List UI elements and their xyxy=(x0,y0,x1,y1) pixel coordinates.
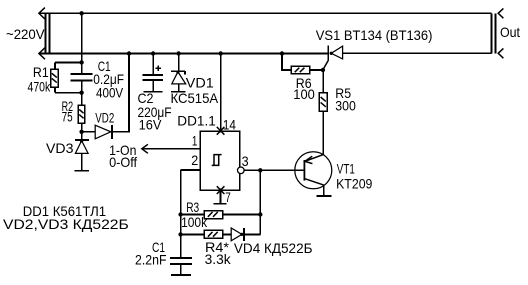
wire: riser from N wire to R6 xyxy=(282,54,291,71)
input connector double bar xyxy=(46,13,50,53)
svg-text:2.2nF: 2.2nF xyxy=(135,252,167,268)
svg-text:2: 2 xyxy=(191,152,198,168)
wire: output pin 3 to VT1 base xyxy=(244,169,304,171)
svg-text:470k: 470k xyxy=(28,78,51,94)
diode VD2 xyxy=(95,125,112,139)
common terminal bar of pin 7 xyxy=(213,203,226,205)
diode VD4 xyxy=(231,228,244,241)
wire: R4 left lead xyxy=(181,233,205,235)
node: junction R6 riser on N wire xyxy=(280,51,284,55)
svg-text:400V: 400V xyxy=(96,85,124,101)
svg-text:VD4 КД522Б: VD4 КД522Б xyxy=(234,240,313,256)
svg-text:3.3k: 3.3k xyxy=(205,251,232,267)
node: junction VD2 riser on N wire xyxy=(127,51,131,55)
wire: left feedback rail down to C1 2.2nF xyxy=(180,170,182,258)
svg-text:100k: 100k xyxy=(181,214,208,230)
wire: top mains line L xyxy=(39,12,492,14)
triac VS1 xyxy=(323,46,343,70)
node: junction R3 left xyxy=(178,212,182,216)
node: gate junction R5/R6 xyxy=(321,68,325,72)
resistor R1 xyxy=(51,62,82,92)
zener diode VD1 xyxy=(171,54,186,92)
svg-text:3: 3 xyxy=(242,153,249,169)
node: junction DD1 pin14 riser on N wire xyxy=(219,51,223,55)
svg-text:VD2,VD3 КД522Б: VD2,VD3 КД522Б xyxy=(3,216,129,232)
capacitor C1 (dropper 0.2uF) xyxy=(71,74,93,80)
node: junction R1/C1 bottom xyxy=(79,91,83,95)
svg-text:R3: R3 xyxy=(186,199,199,215)
capacitor C2 (electrolytic) xyxy=(143,54,164,92)
output connector arrow, bottom xyxy=(498,48,503,58)
common terminal bar of C2 xyxy=(143,91,162,93)
wire: VD4 cathode to feedback rail xyxy=(244,233,260,235)
wire: R6 to gate node xyxy=(310,69,323,71)
resistor R2 xyxy=(78,105,85,123)
svg-text:300: 300 xyxy=(335,98,356,114)
output connector double bar xyxy=(492,13,496,53)
common terminal bar of C1 2.2nF xyxy=(171,274,191,276)
wire: bottom mains line N, left of triac VS1 xyxy=(39,53,328,55)
svg-text:1: 1 xyxy=(192,133,198,149)
common terminal bar of VD1 xyxy=(171,91,186,93)
wire: R3 right lead xyxy=(223,214,261,216)
wire: R4 to VD4 anode xyxy=(223,233,232,235)
svg-text:VD2: VD2 xyxy=(95,110,114,126)
svg-text:VD1: VD1 xyxy=(186,74,214,90)
svg-text:0-Off: 0-Off xyxy=(109,154,137,170)
common terminal bar of VD3 xyxy=(75,170,89,172)
svg-text:7: 7 xyxy=(225,189,231,205)
control input arrow xyxy=(142,144,148,153)
svg-text:Out: Out xyxy=(500,24,520,40)
node: junction output/feedback xyxy=(258,168,262,172)
op-amp U1: logic element DD1.1 box xyxy=(200,131,240,190)
svg-text:КС515А: КС515А xyxy=(171,90,219,106)
resistor R6 xyxy=(291,66,310,73)
output connector arrow, top xyxy=(498,8,503,18)
common terminal bar of VT1 collector xyxy=(317,195,332,197)
input connector arrow, top xyxy=(39,8,45,19)
wire: R3 left lead xyxy=(181,214,205,216)
wire: pin 2 to feedback rail xyxy=(181,169,200,171)
svg-text:DD1.1: DD1.1 xyxy=(177,112,216,128)
capacitor C3: timing C1 2.2nF xyxy=(170,258,192,275)
resistor R5 xyxy=(319,93,327,111)
svg-text:14: 14 xyxy=(223,117,236,133)
wire: rail from C1 bottom to R2 top xyxy=(81,80,83,105)
node: junction R3 right on feedback rail xyxy=(258,212,262,216)
node: junction C2 on N wire xyxy=(151,51,155,55)
input connector arrow, bottom xyxy=(39,48,45,59)
node: junction VD1 on N wire xyxy=(176,51,180,55)
svg-text:KT209: KT209 xyxy=(336,176,372,192)
wire: R2 bottom to node A xyxy=(81,123,83,140)
node: junction R1/C1 top xyxy=(79,60,83,64)
node: junction dot on top wire at dropper rail xyxy=(79,11,83,15)
wire: R5 to VT1 emitter xyxy=(322,111,324,155)
diode VD3 xyxy=(75,139,89,170)
wire: gate node down to R5 xyxy=(322,70,324,93)
node: junction R4 left xyxy=(178,232,182,236)
resistor R3 xyxy=(204,211,223,219)
wire: right feedback rail xyxy=(259,170,261,234)
pin 3 inverter bubble xyxy=(238,167,245,174)
wire: dropper rail from top wire down to C1 top plate (crosses N wire) xyxy=(81,13,83,74)
svg-text:100: 100 xyxy=(293,86,315,102)
wire: node A to VD2 anode xyxy=(82,131,96,133)
svg-text:VS1 BT134 (BT136): VS1 BT134 (BT136) xyxy=(316,27,433,43)
wire: control input to pin 1 xyxy=(142,148,200,150)
schmitt trigger hysteresis symbol xyxy=(212,155,222,166)
pin 7 cross mark xyxy=(217,186,225,194)
node A: junction R2/VD2/VD3 xyxy=(79,130,83,134)
svg-text:~220V: ~220V xyxy=(6,26,45,42)
pin 14 cross mark xyxy=(217,127,225,135)
svg-text:75: 75 xyxy=(62,109,73,125)
wire: VD2 cathode up to N wire xyxy=(112,54,129,132)
wire: riser from N wire to DD1 pin 14 xyxy=(220,54,222,131)
svg-text:VD3: VD3 xyxy=(46,140,74,156)
resistor R4 xyxy=(204,230,223,238)
svg-text:VT1: VT1 xyxy=(337,161,355,177)
wire: bottom mains line N, right of triac VS1 xyxy=(343,52,492,54)
polarity plus sign of C2 xyxy=(156,66,161,71)
svg-text:16V: 16V xyxy=(139,116,162,132)
transistor Q1: VT1 xyxy=(295,152,332,196)
wire: pin 7 down lead xyxy=(220,190,222,204)
